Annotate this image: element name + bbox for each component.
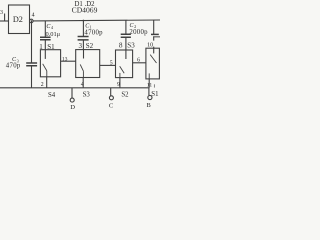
capacitor C4 <box>40 37 51 39</box>
svg-text:D2: D2 <box>13 15 23 24</box>
S1 top contact <box>44 50 46 59</box>
terminal D circle <box>70 98 74 102</box>
wire top bus <box>33 19 160 22</box>
switch S2 box <box>76 50 100 78</box>
node C3 tee <box>31 20 32 21</box>
wire S4 pin11 to bus <box>148 79 150 88</box>
S4 blade <box>150 55 156 63</box>
switch S1 box <box>40 50 60 77</box>
svg-text:4: 4 <box>81 82 84 88</box>
wire S2 pin4 to bus <box>82 78 84 88</box>
wire terminal D stub <box>71 88 73 98</box>
wire 13 <box>61 60 76 62</box>
svg-text:C: C <box>109 103 114 110</box>
S2 top contact <box>83 50 85 59</box>
S3 top contact <box>125 50 127 59</box>
wire C2 to S3 pin8 <box>125 37 127 50</box>
wire C4 to S1 pin1 <box>44 40 46 50</box>
svg-text:CD4069: CD4069 <box>72 6 98 15</box>
svg-text:S3: S3 <box>83 92 91 99</box>
svg-text:S2: S2 <box>121 92 129 99</box>
svg-text:8: 8 <box>119 42 123 50</box>
wire C1 to S2 pin3 <box>82 40 84 50</box>
svg-text:S1: S1 <box>47 43 55 51</box>
svg-text:1: 1 <box>39 43 43 51</box>
wire pin10 stub <box>153 37 155 48</box>
capacitor C5 <box>151 33 159 35</box>
wire C3 to bottom bus <box>31 66 33 88</box>
node C1 tee <box>83 20 85 22</box>
capacitor C2 <box>121 34 131 37</box>
wire C4 drop <box>44 21 46 38</box>
wire 5 <box>100 64 116 66</box>
svg-text:S3: S3 <box>127 42 135 50</box>
svg-text:13: 13 <box>62 56 68 62</box>
svg-text:9: 9 <box>117 82 120 88</box>
wire col4 drop <box>153 20 155 34</box>
inverter U-D2 <box>9 5 30 34</box>
svg-text:3: 3 <box>79 42 83 50</box>
svg-text:5: 5 <box>110 60 113 66</box>
bubble of D2 output <box>30 19 34 23</box>
S1 pivot riser <box>46 71 48 77</box>
svg-text:S2: S2 <box>86 42 94 50</box>
switch S4 box <box>146 48 160 79</box>
wire pin12 tick <box>153 84 155 87</box>
svg-text:4700p: 4700p <box>84 30 103 37</box>
wire S3 pin9 to bus <box>119 78 121 88</box>
capacitor C3 <box>26 63 37 66</box>
svg-text:S4: S4 <box>48 92 56 99</box>
wire S1 pin2 to bus <box>46 77 48 88</box>
wire terminal C stub <box>110 88 112 96</box>
wire input pin 3 <box>0 20 9 22</box>
wire C2 drop <box>125 20 127 34</box>
pin 3 tick <box>4 14 6 22</box>
svg-text:B: B <box>147 102 151 109</box>
svg-text:11: 11 <box>147 83 153 89</box>
svg-text:2: 2 <box>41 82 44 88</box>
svg-text:10: 10 <box>147 42 153 48</box>
svg-text:470p: 470p <box>6 63 21 70</box>
S3 pivot riser <box>119 73 121 78</box>
svg-text:0.01μ: 0.01μ <box>46 31 61 38</box>
S2 pivot riser <box>82 71 84 77</box>
S3 blade <box>120 66 125 73</box>
S1 blade <box>43 64 47 71</box>
switch S3 box <box>116 50 133 78</box>
svg-text:4: 4 <box>32 13 35 19</box>
svg-text:D: D <box>70 104 75 110</box>
svg-text:3: 3 <box>0 10 3 16</box>
S4 pivot riser <box>148 73 150 79</box>
wire terminal B stub <box>148 88 150 96</box>
wire bottom bus <box>0 87 149 89</box>
wire C1 drop <box>82 21 84 37</box>
svg-text:6: 6 <box>137 58 140 64</box>
S2 blade <box>80 64 83 71</box>
capacitor C1 <box>78 37 89 40</box>
wire 6 <box>133 62 146 64</box>
wire C3 drop <box>31 21 33 63</box>
svg-text:2000p: 2000p <box>129 29 148 36</box>
S4 top contact <box>153 48 155 53</box>
terminal B circle <box>148 95 152 99</box>
terminal C circle <box>109 96 113 100</box>
svg-text:S1: S1 <box>151 91 158 98</box>
